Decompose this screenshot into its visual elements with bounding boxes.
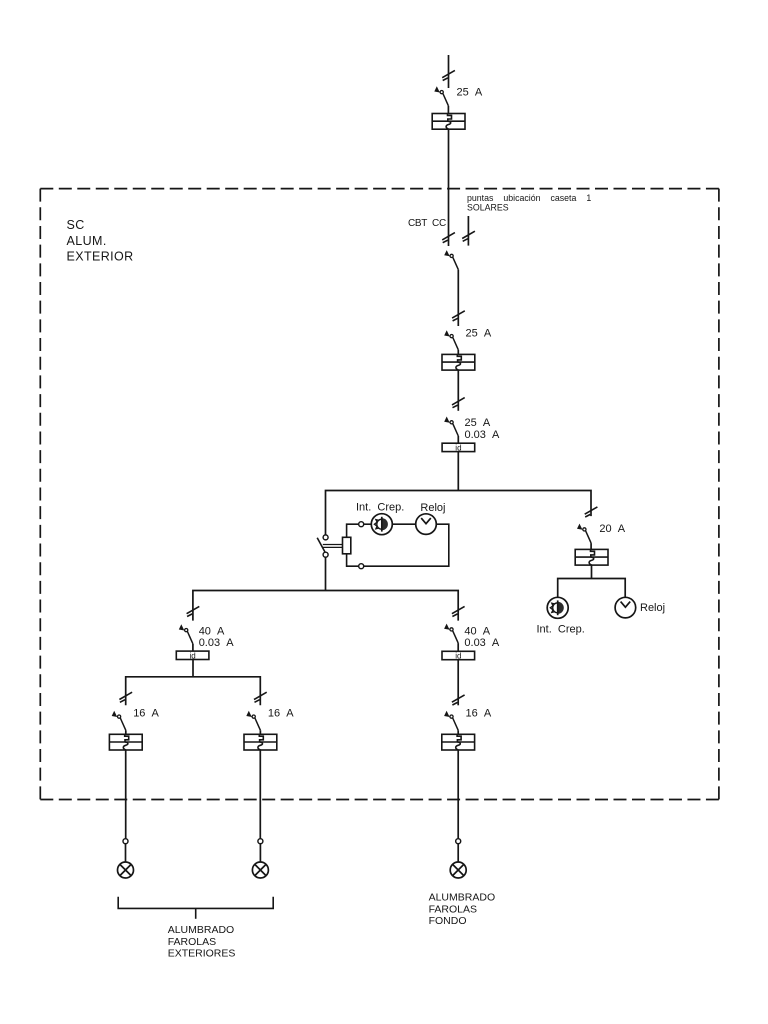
svg-text:20 A: 20 A <box>599 523 625 535</box>
terminal circle (left lamp circuit) <box>123 839 128 844</box>
switch: left RCD 40 A blade <box>179 624 193 644</box>
conductor-count slash above right 40 A RCD <box>452 606 465 616</box>
wire: RCD to distribution bus <box>457 452 459 491</box>
svg-text:ALUM.: ALUM. <box>67 234 107 248</box>
svg-text:0.03 A: 0.03 A <box>199 637 235 649</box>
contactor K1: power contact terminals <box>323 535 328 540</box>
svg-text:Reloj: Reloj <box>420 502 445 514</box>
svg-text:Reloj: Reloj <box>640 602 665 614</box>
breaker: right 16 A thermal-magnetic <box>442 734 475 750</box>
svg-text:25 A: 25 A <box>466 328 492 340</box>
wire: spare stub feeder <box>467 216 469 246</box>
svg-text:SOLARES: SOLARES <box>467 202 509 212</box>
breaker: 20 A thermal-magnetic <box>575 549 608 565</box>
conductor-count slash on incoming feeder <box>442 70 455 80</box>
lamp: fondo farola <box>450 862 466 878</box>
wire: 20 A breaker to control devices bus <box>591 565 593 578</box>
wire: CBT CC to first cabinet breaker <box>457 270 459 326</box>
conductor-count slash above right 16 A breaker <box>452 695 465 705</box>
breaker: 25 A thermal-magnetic <box>442 354 475 370</box>
time switch Reloj (20 A circuit) <box>615 597 636 618</box>
contactor K1: lower terminal <box>323 552 328 557</box>
switch: 20 A breaker blade <box>577 524 591 544</box>
switch: right RCD 40 A blade <box>444 624 458 644</box>
switch: left 16 A breaker blade <box>112 711 126 731</box>
wire: clock to loop right side and return <box>364 524 449 566</box>
switch: middle 16 A breaker blade <box>246 711 260 731</box>
wire: to right lamp <box>457 844 459 862</box>
RCD id box (right 40 A differential) <box>442 651 475 660</box>
wire: return to coil bottom <box>347 554 359 566</box>
svg-text:25 A: 25 A <box>457 87 483 99</box>
wire: control devices bus <box>558 579 626 598</box>
wire: between 25 A breaker and RCD <box>457 370 459 411</box>
conductor-count slash at CBT CC <box>442 233 455 243</box>
breaker: main thermal-magnetic 25 A <box>432 114 465 130</box>
bracket: group label for exterior farolas <box>118 897 273 909</box>
wire: terminal to photocell <box>364 523 372 525</box>
contactor K1: coil <box>343 537 351 554</box>
svg-text:EXTERIOR: EXTERIOR <box>67 250 134 264</box>
svg-text:Int. Crep.: Int. Crep. <box>356 502 404 514</box>
svg-text:40 A: 40 A <box>199 625 225 637</box>
wire: photocell to clock <box>392 523 415 525</box>
control terminal (top) <box>359 522 364 527</box>
wire: right RCD down to 16 A breaker <box>457 660 459 706</box>
wire: coil control loop top <box>347 524 359 537</box>
wire: left RCD to sub bus <box>192 660 194 677</box>
svg-text:EXTERIORES: EXTERIORES <box>168 948 236 960</box>
svg-text:16 A: 16 A <box>133 708 159 720</box>
svg-text:puntas ubicación caseta 1: puntas ubicación caseta 1 <box>467 193 591 203</box>
wire: feeder into cabinet <box>448 129 450 246</box>
terminal circle (middle lamp circuit) <box>258 839 263 844</box>
conductor-count slash above RCD <box>452 398 465 408</box>
conductor-count slash above middle 16 A breaker <box>254 692 267 702</box>
enclosure: dashed cabinet boundary SC ALUM. EXTERIOR <box>40 189 719 800</box>
wire: contactor output down to lighting bus <box>325 557 327 590</box>
svg-text:FONDO: FONDO <box>429 915 467 927</box>
wire: lower lighting bus <box>193 591 458 621</box>
control terminal (bottom) <box>359 564 364 569</box>
wire: middle 16 A breaker to lamp <box>259 750 261 839</box>
svg-text:FAROLAS: FAROLAS <box>429 903 477 915</box>
RCD id box (25 A differential) <box>442 443 475 452</box>
photocell Int. Crep. (20 A circuit) <box>547 597 568 618</box>
conductor-count slash above left 40 A RCD <box>187 606 200 616</box>
time switch Reloj (control) <box>416 514 437 535</box>
wire: to middle lamp <box>259 844 261 862</box>
RCD id box (left 40 A differential) <box>176 651 209 660</box>
svg-text:0.03 A: 0.03 A <box>465 429 501 441</box>
switch: 25 A breaker blade <box>444 330 458 350</box>
switch: main isolator 25 A <box>434 86 448 106</box>
svg-text:SC: SC <box>67 218 85 232</box>
breaker: left 16 A thermal-magnetic <box>109 734 142 750</box>
svg-text:16 A: 16 A <box>268 708 294 720</box>
breaker: middle 16 A thermal-magnetic <box>244 734 277 750</box>
wire: right 16 A breaker to lamp <box>457 750 459 839</box>
svg-text:Int. Crep.: Int. Crep. <box>537 623 585 635</box>
svg-text:16 A: 16 A <box>466 708 492 720</box>
conductor-count slash above 20 A breaker <box>585 507 598 517</box>
svg-text:40 A: 40 A <box>464 626 490 638</box>
wire: to left lamp <box>125 844 127 862</box>
lamp: left farola <box>118 862 134 878</box>
svg-text:FAROLAS: FAROLAS <box>168 936 216 948</box>
conductor-count slash on spare stub <box>462 231 475 241</box>
wire: incoming supply feeder <box>448 55 450 88</box>
wire: upper distribution bus <box>326 491 592 535</box>
terminal circle (right lamp circuit) <box>456 839 461 844</box>
photocell Int. Crep. (control) <box>371 514 392 535</box>
switch: RCD 25 A 0.03 A blade <box>444 417 458 437</box>
switch: right 16 A breaker blade <box>444 711 458 731</box>
conductor-count slash above left 16 A breaker <box>119 692 132 702</box>
svg-text:0.03 A: 0.03 A <box>464 637 500 649</box>
svg-text:ALUMBRADO: ALUMBRADO <box>168 924 235 936</box>
conductor-count slash above 25 A breaker <box>452 311 465 321</box>
switch: CBT CC disconnector <box>444 250 458 270</box>
svg-text:CBT CC: CBT CC <box>408 218 446 229</box>
svg-text:ALUMBRADO: ALUMBRADO <box>429 892 496 904</box>
contactor K1: mechanical linkage <box>323 544 343 546</box>
lamp: middle farola <box>252 862 268 878</box>
contactor K1: contact blade <box>317 538 325 553</box>
wire: left 16 A breaker to lamp <box>125 750 127 839</box>
wire: left sub distribution bus <box>126 677 261 706</box>
svg-text:25 A: 25 A <box>465 417 491 429</box>
